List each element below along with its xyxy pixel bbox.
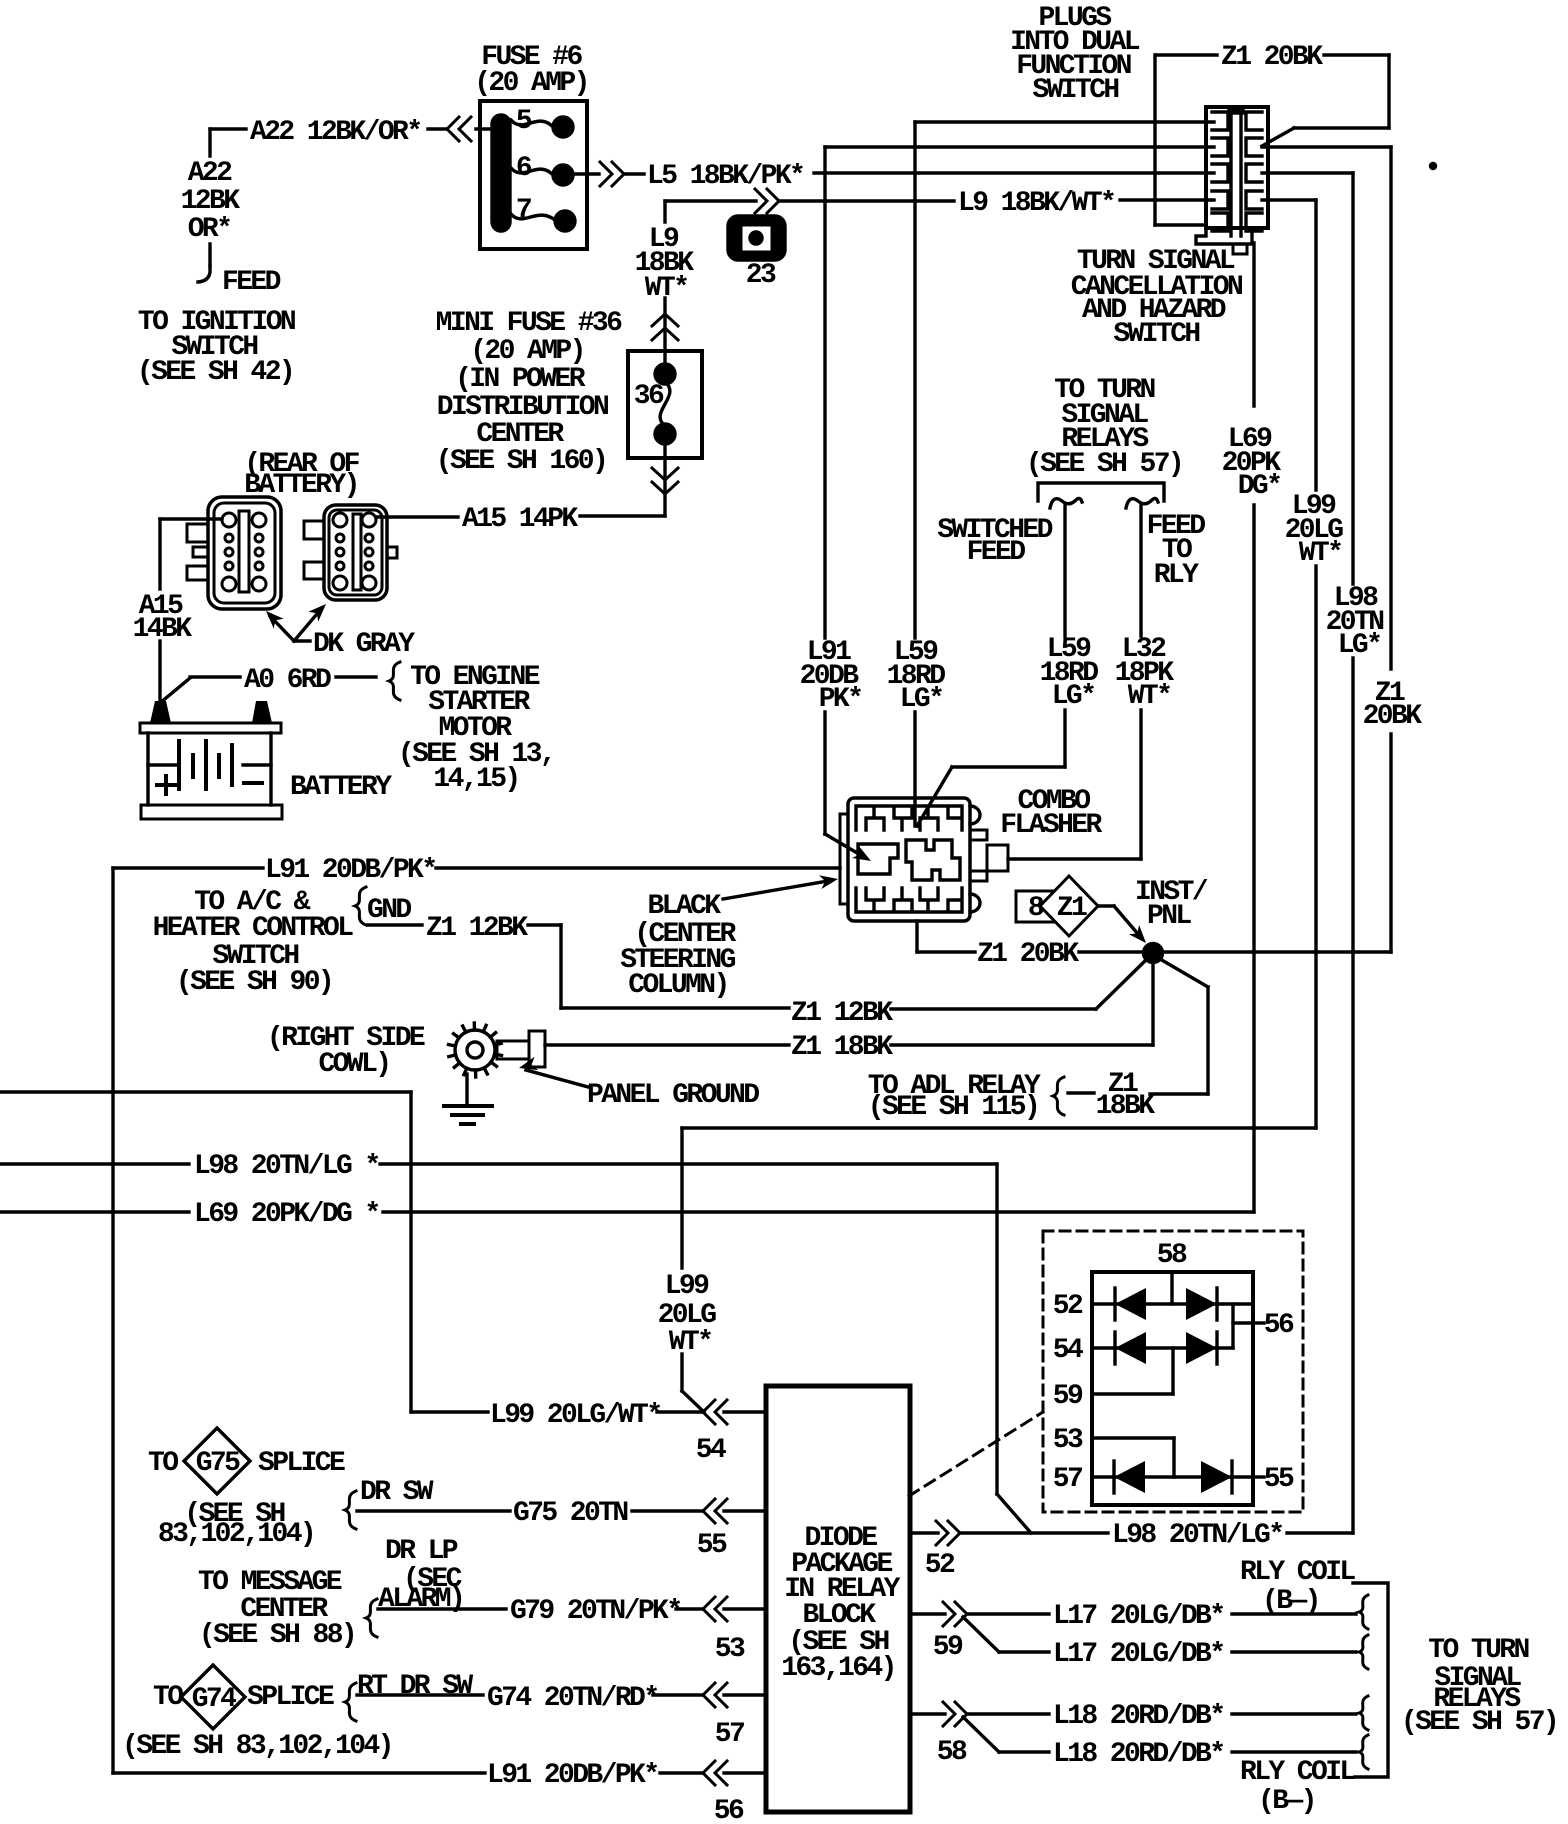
dashed callout line to diode package [909,1412,1043,1496]
inline connector on G79 (female) [703,1597,727,1621]
callout line BLACK to flasher [723,881,828,899]
panel ground symbol [444,1106,492,1124]
label Z1 12BK (upper) [426,913,528,944]
diode D6 (row 57 right) [1201,1461,1232,1493]
wire switch pin2 to Z1 vertical [1262,145,1391,148]
row 52 top stub [1170,1272,1173,1304]
label pin 53 [1053,1425,1083,1456]
brace ADL relay [1053,1077,1064,1115]
svg-text:57: 57 [715,1719,744,1750]
label pin 59 [1053,1381,1083,1412]
svg-text:55: 55 [1264,1464,1294,1495]
label MINI FUSE #36 (20 AMP) (IN POWER DISTRIBUTION CENTER (SEE SH 160) [436,308,622,477]
wire L59 18RD/LG* vertical to flasher [913,122,916,826]
wire A0 6RD from battery [160,677,376,703]
battery - terminal mark [244,781,262,785]
diode package block outline [766,1386,910,1812]
svg-text:55: 55 [697,1530,727,1561]
label cavity 58 [937,1737,967,1768]
label A0 6RD [244,665,331,696]
pin 7 label [516,195,531,226]
wire L99 20LG/WT* vertical trunk [1314,200,1317,1128]
wire L5 18BK/PK* from fuse 6 to switch pin 3 [572,173,1214,174]
svg-text:(SEE SH 160): (SEE SH 160) [436,446,606,477]
svg-text:RLY: RLY [1154,560,1199,591]
svg-text:Z1: Z1 [1057,893,1087,924]
svg-text:L99 20LG/WT*: L99 20LG/WT* [490,1400,660,1431]
inline connector on output 58 (male) [943,1702,967,1726]
wire A22 12BK/OR* to ignition switch [198,129,492,282]
wire L18 branch lower [963,1717,1356,1752]
svg-text:G75: G75 [196,1448,240,1479]
label cavity 53 [715,1634,745,1665]
svg-text:L17 20LG/DB*: L17 20LG/DB* [1053,1601,1223,1632]
diode D4 (row 54 right) [1186,1332,1217,1364]
brace GND [355,887,366,925]
wire switch pin1 to L59 vertical [915,120,1214,123]
label G74 (diamond) [192,1684,236,1715]
switch contact hook left [1050,498,1082,508]
wire L9 18BK/WT* horizontal run [665,200,1214,201]
svg-text:SPLICE: SPLICE [247,1682,334,1713]
fuse 5 terminal dot [553,117,573,137]
label Z1 20BK (at junction) [977,939,1079,970]
wire L99 20LG/WT* cross run [682,1128,1316,1412]
svg-text:53: 53 [1053,1425,1083,1456]
combo flasher right stub lower [970,871,987,881]
svg-text:58: 58 [1157,1240,1187,1271]
DK GRAY arrowhead right [308,599,331,622]
svg-text:LG*: LG* [900,684,943,715]
svg-text:WT*: WT* [669,1327,712,1358]
fuse 36 terminal dot lower [655,424,675,444]
label L9 18BK/WT* [958,188,1114,219]
label TO TURN SIGNAL RELAYS (SEE SH 57) [1026,375,1182,480]
label RT DR SW [357,1671,473,1702]
label DIODE PACKAGE IN RELAY BLOCK (SEE SH 163,164) [781,1523,900,1684]
label L91 20DB/PK* [265,855,435,886]
svg-text:L18 20RD/DB*: L18 20RD/DB* [1053,1701,1223,1732]
wire L69 20PK/DG* vertical trunk from switch bottom [1252,243,1255,1212]
label L17 20LG/DB* (upper) [1053,1601,1223,1632]
fuse block F6 bus bar [492,115,510,231]
wire L17 branch lower [963,1617,1356,1652]
fuse block F36 outline [628,351,702,458]
splice diamond G74 [181,1665,245,1729]
wire A15 14BK from connector C1 to battery [160,519,222,701]
label L91 20DB/PK* (bottom) [487,1760,657,1791]
label (SEE SH 83,102,104) [158,1499,314,1550]
svg-text:(SEE SH 115): (SEE SH 115) [868,1092,1038,1123]
label pin 55 [1264,1464,1294,1495]
net label L69 20PK DG* (stacked) [1222,424,1282,502]
label TO ENGINE STARTER MOTOR (SEE SH 13, 14,15) [398,662,554,795]
svg-text:WT*: WT* [1299,538,1342,569]
label COMBO FLASHER [1000,786,1102,841]
wire Z1 20BK label loop at switch [1156,55,1389,146]
inline connector on G74 (female) [703,1683,727,1707]
svg-text:L5 18BK/PK*: L5 18BK/PK* [647,161,803,192]
wire L59 18RD/LG* from switched feed to flasher [917,506,1065,826]
svg-text:LG*: LG* [1052,681,1095,712]
diode bridge inner box [1092,1272,1253,1505]
svg-text:RT DR SW: RT DR SW [357,1671,473,1702]
diode D3 (row 54 left) [1115,1332,1146,1364]
svg-text:A0 6RD: A0 6RD [244,665,331,696]
svg-text:36: 36 [634,381,664,412]
fuse 36 terminal dot upper [655,364,675,384]
scan speck [1431,164,1436,169]
svg-text:TO TURN: TO TURN [1428,1635,1528,1666]
label A15 14PK [462,504,578,535]
battery top cover [140,723,281,733]
svg-text:DK GRAY: DK GRAY [313,629,415,660]
wire switch pin4 to L99 vertical [1262,198,1316,201]
wire flasher bottom pin to Z1 20BK [917,921,1144,952]
connector C2 (rear of battery) body [304,505,397,600]
battery case walls [148,733,271,805]
label L98 20TN/LG * [194,1151,379,1182]
row 59 wiring [1092,1392,1173,1395]
fuse element 6 [511,168,552,174]
svg-text:56: 56 [1264,1310,1294,1341]
arrowhead splice to junction [1129,925,1151,948]
net label L9 18BK WT* (stacked) [635,224,695,304]
svg-text:FLASHER: FLASHER [1000,810,1102,841]
junction node Z1 (INST/PNL) [1144,944,1163,963]
connector J1 pin cavities [1212,112,1262,231]
net label Z1 20BK (stacked) [1363,678,1423,732]
wire G75 20TN into diode package [357,1509,766,1512]
svg-text:(SEE SH 90): (SEE SH 90) [176,967,332,998]
inline connector on L91 (female) [703,1761,727,1785]
svg-text:L9 18BK/WT*: L9 18BK/WT* [958,188,1114,219]
svg-text:(B—): (B—) [1262,1586,1319,1617]
svg-text:7: 7 [516,195,531,226]
svg-text:12BK: 12BK [181,186,241,217]
svg-text:PANEL GROUND: PANEL GROUND [587,1080,759,1111]
row 52/54 right link [1233,1304,1264,1348]
brace to engine starter [389,662,400,700]
arrowhead into flasher (L91) [852,846,875,867]
combo flasher mounting bracket [840,814,848,904]
net label L59 18RD LG* (stacked) [887,637,946,715]
svg-text:A22 12BK/OR*: A22 12BK/OR* [250,117,420,148]
battery + terminal mark [157,776,175,794]
net label L99 20LG WT* (stacked) [1285,491,1344,569]
fuse 36 lead lower [663,440,666,458]
label cavity 52 [925,1550,955,1581]
svg-text:Z1 20BK: Z1 20BK [1221,42,1323,73]
svg-text:COWL): COWL) [318,1049,389,1080]
net label L91 20DB PK* (stacked) [800,637,862,715]
wire L98 20TN/LG* vertical trunk [1351,173,1354,1533]
svg-text:L17 20LG/DB*: L17 20LG/DB* [1053,1639,1223,1670]
svg-text:(SEE SH 57): (SEE SH 57) [1026,449,1182,480]
net label A22 12BK OR* (stacked) [181,158,241,245]
wire L32 18PK/WT* from feed-to-rly to flasher [1008,506,1141,859]
svg-text:(SEE SH 42): (SEE SH 42) [137,357,293,388]
wire left bus rectangle [111,868,114,1773]
fuse element 5 [511,120,552,126]
combo flasher top meander [856,806,962,830]
svg-text:(IN POWER: (IN POWER [455,364,586,395]
wire L98 20TN/LG* from page edge [0,1164,1031,1533]
label PLUGS INTO DUAL FUNCTION SWITCH [1010,3,1140,106]
row 53 wiring [1092,1438,1174,1477]
combo flasher body outline [848,798,970,921]
wire bracket from Z1 20BK label to switch pin 5 [1155,55,1206,225]
svg-text:DG*: DG* [1238,471,1281,502]
label PANEL GROUND [587,1080,759,1111]
brace rly 2 [1359,1635,1368,1669]
label 8 [1028,893,1044,924]
svg-text:(SEE SH 57): (SEE SH 57) [1401,1707,1557,1738]
row 57 wiring [1092,1475,1264,1478]
label G75 20TN [513,1498,627,1529]
net label L98 20TN LG* (stacked) [1326,583,1384,661]
label GND [367,895,411,926]
svg-text:BATTERY: BATTERY [290,772,392,803]
label DR SW [360,1477,434,1508]
label cavity 55 [697,1530,727,1561]
inline connector chevrons below fuse 36 [652,468,678,494]
svg-text:DR SW: DR SW [360,1477,434,1508]
pin 5 label [516,106,532,137]
wire L99 20LG/WT* into diode package [411,1410,766,1413]
label FEED [222,267,281,298]
label pin 54 [1053,1335,1083,1366]
bracket to turn signal relays (right) [1353,1583,1388,1777]
svg-text:20BK: 20BK [1363,701,1423,732]
combo flasher center block [858,840,960,880]
svg-text:G79 20TN/PK*: G79 20TN/PK* [510,1596,680,1627]
wire Z1 18BK to ADL relay [1068,959,1208,1094]
svg-text:83,102,104): 83,102,104) [158,1519,314,1550]
label 58 [1157,1240,1187,1271]
label A22 12BK/OR* [250,117,420,148]
svg-text:SWITCH: SWITCH [1113,319,1199,350]
wire G79 20TN/PK* into diode package [378,1607,766,1610]
label FUSE #6 (20 AMP) [474,42,588,99]
wire L9 vertical to fuse 36 [663,201,666,351]
label L99 20LG/WT* [490,1400,660,1431]
svg-text:14BK: 14BK [133,614,193,645]
svg-text:52: 52 [925,1550,955,1581]
svg-text:14,15): 14,15) [433,764,518,795]
diode D1 (row 52 left) [1115,1288,1146,1320]
svg-text:57: 57 [1053,1464,1082,1495]
brace rly 4 [1359,1735,1368,1769]
label cavity 54 [696,1435,726,1466]
svg-text:(SEE SH 88): (SEE SH 88) [199,1620,355,1651]
label BATTERY [290,772,392,803]
fuse 7 terminal dot [555,211,575,231]
svg-text:Z1 20BK: Z1 20BK [977,939,1079,970]
net label L59 18RD LG* right (stacked) [1040,634,1099,712]
label SWITCHED FEED [937,515,1052,568]
combo flasher right bump lower [970,894,980,912]
wire L69 20PK/DG* from page edge [0,1210,1254,1213]
fuse element 36 [660,382,670,426]
wire L91 20DB/PK* bottom run [113,1771,766,1774]
brace DR SW [345,1491,356,1529]
svg-text:54: 54 [1053,1335,1083,1366]
label Z1 18BK [791,1032,893,1063]
battery negative post [252,701,272,723]
svg-text:G74 20TN/RD*: G74 20TN/RD* [487,1683,657,1714]
svg-text:(SEE SH 83,102,104): (SEE SH 83,102,104) [122,1731,392,1762]
svg-text:59: 59 [1053,1381,1083,1412]
fuse 36 lead upper [663,351,666,368]
row 54 wiring [1092,1346,1233,1349]
svg-text:L91 20DB/PK*: L91 20DB/PK* [487,1760,657,1791]
label Z1 18BK (ADL, stacked) [1096,1069,1156,1122]
svg-text:A15 14PK: A15 14PK [462,504,578,535]
label INST/ PNL [1135,877,1208,932]
svg-text:59: 59 [933,1632,963,1663]
label TO IGNITION SWITCH (SEE SH 42) [137,307,295,388]
label TO TURN SIGNAL RELAYS (SEE SH 57) right [1401,1635,1557,1738]
label RLY COIL (B-) top [1240,1557,1355,1617]
connector J1 center spine [1229,107,1243,236]
label TO (G74) [153,1682,183,1713]
label G74 20TN/RD* [487,1683,657,1714]
brace RT DR SW [345,1683,356,1721]
fuse block F6 outline [480,101,587,249]
label G79 20TN/PK* [510,1596,680,1627]
label RLY COIL (B-) bottom [1240,1757,1355,1817]
label 36 [634,381,664,412]
label (RIGHT SIDE COWL) [267,1023,425,1080]
inline connector chevrons above fuse 36 [652,314,678,340]
label L5 18BK/PK* [647,161,803,192]
svg-text:FEED: FEED [967,537,1026,568]
wire A15 14PK to connector [376,515,458,518]
connector C1 pins [222,513,266,591]
label L98 20TN/LG* [1112,1520,1282,1551]
wire switch pin3 to L98 vertical [1262,171,1353,174]
wire L91 20DB/PK* vertical drop [825,147,864,857]
label G75 (diamond) [196,1448,240,1479]
label FEED TO RLY [1147,511,1206,591]
wire Z1 18BK from lug to junction [545,962,1153,1045]
svg-text:WT*: WT* [1128,681,1171,712]
svg-text:MINI FUSE #36: MINI FUSE #36 [436,308,622,339]
wire Z1 20BK vertical trunk [1389,147,1392,952]
label DR LP (SEC ALARM) [378,1536,463,1615]
svg-text:GND: GND [367,895,411,926]
diode D5 (row 57 left) [1114,1461,1145,1493]
relay block 58 dashed outline [1043,1231,1303,1512]
svg-text:53: 53 [715,1634,745,1665]
svg-text:163,164): 163,164) [781,1653,895,1684]
splice symbol 8 Z1 [1016,876,1098,936]
inline connector on L5 (male) [600,162,624,186]
label pin 56 [1264,1310,1294,1341]
svg-text:PK*: PK* [819,684,862,715]
label TO (G75) SPLICE [148,1448,178,1479]
label cavity 56 [714,1796,744,1824]
DK GRAY callout lines [270,608,322,641]
label BLACK (CENTER STEERING COLUMN) [620,891,736,1001]
svg-text:L69 20PK/DG *: L69 20PK/DG * [194,1199,379,1230]
label cavity 57 [715,1719,744,1750]
svg-text:8: 8 [1028,893,1044,924]
svg-text:COLUMN): COLUMN) [628,970,727,1001]
inline connector on output 52 (male) [936,1521,960,1545]
label (SEE SH 83,102,104) bottom [122,1731,392,1762]
pin 6 label [516,153,532,184]
fuse 6 terminal dot [553,165,573,185]
connector C2 pins [333,513,376,590]
svg-text:(20 AMP): (20 AMP) [470,336,584,367]
wire Z1 trunk from page edge [0,1092,411,1412]
label L69 20PK/DG * [194,1199,379,1230]
svg-text:L98 20TN/LG *: L98 20TN/LG * [194,1151,379,1182]
inline connector on wire A22 (female) [447,117,471,141]
svg-text:Z1 12BK: Z1 12BK [791,998,893,1029]
label DK GRAY [313,629,415,660]
svg-text:WT*: WT* [645,273,688,304]
inline connector on L99 (female) [703,1400,727,1424]
label 23 [746,260,776,291]
battery cell plates [148,741,271,789]
svg-text:BLACK: BLACK [647,891,721,922]
row 54/59 link [1171,1348,1174,1394]
arrowhead PANEL GROUND [517,1057,538,1075]
connector C1 (rear of battery) body [187,497,281,609]
wire switch pin2 to L91 vertical [825,145,1214,148]
svg-text:Z1 12BK: Z1 12BK [426,913,528,944]
label TURN SIGNAL CANCELLATION AND HAZARD SWITCH [1071,246,1242,350]
label Z1 12BK (lower) [791,998,893,1029]
brace rly 1 [1359,1595,1368,1629]
ground lug ring G (right side cowl) [449,1023,502,1077]
bracket to turn signal relays [1038,483,1164,501]
combo flasher terminal box [987,845,1008,871]
svg-text:SWITCH: SWITCH [1032,75,1118,106]
svg-text:HEATER CONTROL: HEATER CONTROL [153,913,354,944]
label Z1 (diamond) [1057,893,1087,924]
inline connector on L9 (male) [755,189,779,213]
label TO MESSAGE CENTER (SEE SH 88) [198,1567,355,1651]
combo flasher right stub upper [970,830,987,840]
connector symbol 23 (black block) [728,216,785,260]
svg-text:DR LP: DR LP [385,1536,458,1567]
connector J1 dual function switch outline [1206,107,1268,228]
label TO A/C & HEATER CONTROL SWITCH (SEE SH 90) [153,887,354,998]
svg-text:56: 56 [714,1796,744,1824]
svg-text:TO: TO [148,1448,178,1479]
wire G74 20TN/RD* into diode package [357,1693,766,1696]
label SPLICE [258,1448,345,1479]
wire Z1 12BK from GND [368,925,789,1008]
svg-text:Z1 18BK: Z1 18BK [791,1032,893,1063]
net label L99 20LG WT* (stacked low) [658,1271,717,1358]
connector J1 bottom foot [1196,228,1252,254]
svg-text:PNL: PNL [1147,901,1191,932]
wire junction to Z1 vertical [1162,950,1391,953]
svg-text:(20 AMP): (20 AMP) [474,68,588,99]
svg-text:G75 20TN: G75 20TN [513,1498,627,1529]
battery bottom tray [141,805,282,819]
svg-text:L98 20TN/LG*: L98 20TN/LG* [1112,1520,1282,1551]
svg-text:L18 20RD/DB*: L18 20RD/DB* [1053,1739,1223,1770]
svg-text:L91 20DB/PK*: L91 20DB/PK* [265,855,435,886]
svg-text:23: 23 [746,260,776,291]
fuse element 7 [511,214,555,220]
